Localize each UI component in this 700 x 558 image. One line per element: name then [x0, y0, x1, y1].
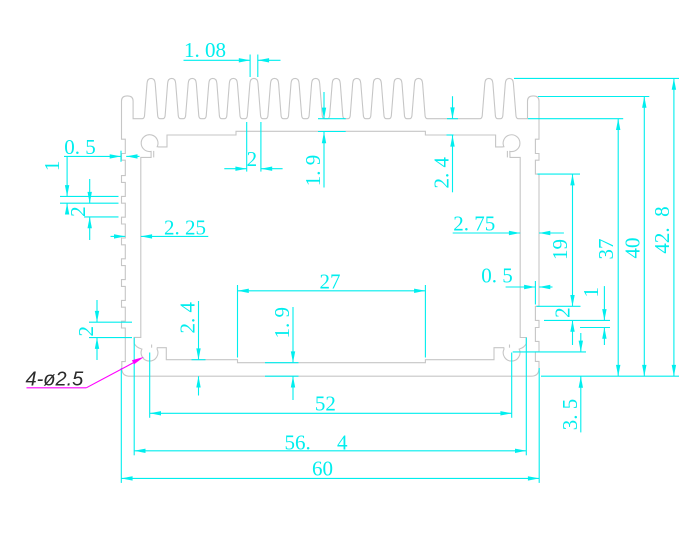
dimension 37 [617, 119, 619, 377]
dimension 1.9 roof center thickness [323, 92, 325, 119]
svg-text:2: 2 [247, 147, 258, 171]
profile inner cavity outline with four screw bosses [134, 131, 526, 362]
svg-text:2: 2 [66, 206, 90, 217]
svg-text:19: 19 [548, 239, 572, 260]
dimension 1.08 fin tip width [184, 59, 251, 61]
svg-text:0. 5: 0. 5 [64, 135, 96, 159]
svg-text:1. 9: 1. 9 [270, 307, 294, 339]
svg-text:0. 5: 0. 5 [481, 264, 513, 288]
svg-text:42. 8: 42. 8 [650, 206, 674, 253]
svg-text:27: 27 [320, 269, 341, 293]
svg-text:4-ø2.5: 4-ø2.5 [26, 368, 85, 390]
svg-text:1. 9: 1. 9 [301, 155, 325, 187]
svg-text:52: 52 [315, 391, 336, 415]
dimension 2 bottom-left [96, 300, 98, 322]
svg-text:37: 37 [594, 239, 618, 260]
dimension 19 right side [572, 174, 574, 306]
svg-text:40: 40 [621, 238, 645, 259]
svg-text:2. 75: 2. 75 [453, 212, 495, 236]
svg-text:3. 5: 3. 5 [558, 399, 582, 431]
screw boss slot hooks [153, 151, 155, 158]
svg-text:56. 4: 56. 4 [285, 430, 349, 454]
dimension 1 left tooth height [66, 156, 68, 196]
svg-text:1. 08: 1. 08 [184, 38, 226, 62]
dimension 2.4 floor side thickness [198, 301, 200, 360]
svg-text:2: 2 [551, 307, 575, 318]
magenta leader line for screw holes [27, 387, 87, 389]
dimension 40 [643, 97, 645, 377]
svg-text:1: 1 [40, 161, 64, 172]
dimension 1 right notch tooth [603, 286, 605, 320]
dimension 2 right notch [572, 320, 574, 345]
dimension 2.4 roof side thickness [452, 96, 454, 119]
dimension 2 left tooth gap [89, 179, 91, 203]
dimension 0.5 right notch depth [506, 286, 536, 288]
dimension 2.25 left wall thickness [111, 235, 126, 237]
bottom extension line [541, 375, 679, 377]
svg-text:2. 4: 2. 4 [176, 302, 200, 334]
svg-text:1: 1 [579, 287, 603, 298]
dimension 1.9 floor center thickness [292, 307, 294, 363]
svg-text:2. 25: 2. 25 [164, 215, 206, 239]
dimension 56.4 [134, 450, 526, 452]
dimension 2 fin base width [246, 122, 248, 172]
dimension 3.5 [580, 333, 582, 352]
svg-text:2. 4: 2. 4 [430, 156, 454, 188]
aluminum profile outer outline with heatsink fins [122, 78, 540, 376]
dimension 52 screw boss spacing [150, 412, 512, 414]
dimension 42.8 overall height [673, 78, 675, 376]
dimension 0.5 left tooth depth [64, 155, 121, 157]
dimension 27 floor recess width [238, 290, 426, 292]
dimension 60 overall width [121, 477, 539, 479]
svg-text:2: 2 [74, 326, 98, 337]
svg-text:60: 60 [312, 457, 333, 481]
dimension 2.75 right wall thickness [453, 232, 521, 234]
